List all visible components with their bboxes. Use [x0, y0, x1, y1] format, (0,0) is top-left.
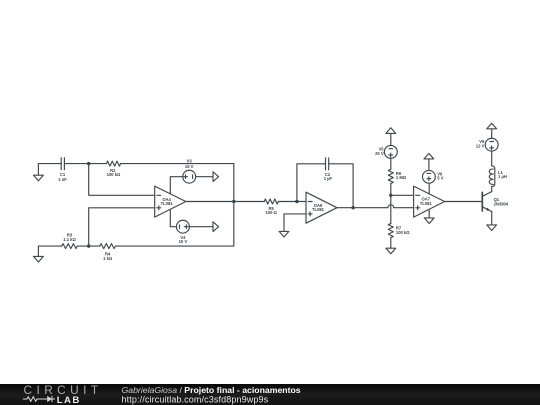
svg-text:1 µH: 1 µH	[498, 174, 507, 179]
svg-text:100 Ω: 100 Ω	[266, 210, 278, 215]
wire	[64, 163, 106, 165]
value label Q1	[494, 197, 509, 206]
node OA6 output junction	[351, 206, 354, 209]
wire	[196, 176, 213, 178]
value label V4	[179, 235, 188, 244]
value label V9	[476, 139, 485, 148]
wire	[391, 194, 414, 196]
voltage source V4	[176, 220, 189, 233]
wire	[89, 164, 155, 196]
wire	[77, 245, 88, 247]
ground	[279, 221, 289, 237]
resistor R5	[264, 199, 278, 204]
svg-text:LAB: LAB	[57, 395, 81, 405]
svg-text:5 V: 5 V	[437, 176, 443, 181]
value label R5	[266, 206, 278, 215]
value label R4	[103, 252, 113, 261]
svg-text:2N3904: 2N3904	[494, 201, 509, 206]
voltage source V6	[423, 170, 436, 183]
svg-text:20 V: 20 V	[375, 151, 384, 156]
svg-text:100 kΩ: 100 kΩ	[396, 230, 410, 235]
inductor L1	[489, 166, 495, 187]
svg-text:100 kΩ: 100 kΩ	[107, 172, 121, 177]
voltage source V9	[485, 138, 498, 151]
svg-text:1 MΩ: 1 MΩ	[396, 175, 407, 180]
svg-text:GabrielaGiosa / Projeto final: GabrielaGiosa / Projeto final - acioname…	[122, 385, 301, 395]
transistor Q1	[482, 192, 491, 212]
ground	[487, 123, 497, 138]
value label R3	[63, 233, 76, 242]
wire hop	[388, 205, 394, 208]
wire	[329, 164, 353, 208]
wire	[278, 201, 306, 203]
value label R2	[107, 168, 121, 177]
capacitor C2	[326, 158, 329, 170]
wire	[428, 183, 430, 194]
wire	[89, 208, 155, 246]
ground	[424, 153, 434, 170]
node A junction	[87, 162, 90, 165]
wire	[170, 177, 183, 194]
value label OA7	[420, 197, 433, 206]
svg-text:1.1 kΩ: 1.1 kΩ	[63, 237, 76, 242]
ground	[213, 222, 219, 232]
wire	[116, 164, 234, 247]
value label OA4	[161, 197, 174, 206]
wire	[390, 184, 392, 224]
svg-text:TL081: TL081	[161, 201, 174, 206]
svg-text:TL081: TL081	[312, 207, 325, 212]
resistor R7	[388, 224, 393, 238]
svg-text:15 V: 15 V	[185, 164, 194, 169]
wire	[189, 226, 213, 228]
wire	[445, 201, 482, 203]
value label OA6	[312, 203, 325, 212]
svg-text:12 V: 12 V	[476, 143, 485, 148]
wire	[284, 214, 306, 221]
resistor R4	[100, 244, 116, 249]
CircuitLab logo schematic line	[23, 396, 55, 402]
op-amp OA4	[155, 186, 186, 217]
resistor R2	[106, 161, 120, 166]
ground	[386, 248, 396, 254]
svg-text:http://circuitlab.com/c3sfd8pn: http://circuitlab.com/c3sfd8pn9wp9s	[122, 395, 269, 405]
svg-text:1 µF: 1 µF	[324, 176, 333, 181]
ground	[424, 210, 434, 224]
value label R6	[396, 171, 407, 180]
wire	[491, 151, 493, 166]
node OA6 inverting input junction	[295, 200, 298, 203]
svg-text:TL081: TL081	[420, 201, 433, 206]
wire	[491, 187, 493, 192]
op-amp OA7	[414, 186, 445, 217]
wire	[337, 207, 388, 209]
svg-text:V3: V3	[187, 158, 193, 163]
resistor R3	[62, 244, 78, 249]
svg-text:15 V: 15 V	[179, 239, 188, 244]
node OA7 reference junction	[389, 194, 392, 197]
ground	[34, 164, 44, 181]
ground	[386, 128, 396, 146]
ground	[34, 246, 44, 262]
resistor R6	[388, 169, 393, 183]
voltage source V3	[183, 170, 196, 183]
wire	[89, 245, 100, 247]
voltage source V5	[384, 145, 397, 158]
value label V3	[185, 158, 194, 168]
ground	[213, 172, 219, 182]
value label R7	[396, 226, 410, 235]
wire	[390, 158, 392, 169]
value label V5	[375, 147, 384, 156]
value label V6	[437, 171, 443, 180]
ground	[487, 225, 497, 231]
node OA4 output junction	[232, 200, 235, 203]
value label C1	[58, 172, 67, 182]
wire	[186, 201, 264, 203]
node R3-R4 junction	[87, 244, 90, 247]
capacitor C1	[61, 158, 64, 170]
wire	[170, 209, 176, 226]
wire	[390, 238, 392, 249]
svg-text:1 nF: 1 nF	[58, 177, 67, 182]
wire	[38, 163, 61, 165]
wire	[394, 207, 414, 209]
wire	[38, 245, 61, 247]
value label C2	[324, 172, 333, 181]
wire	[297, 164, 326, 202]
value label L1	[498, 170, 507, 179]
op-amp OA6	[306, 192, 337, 223]
wire	[491, 212, 493, 225]
svg-text:1 kΩ: 1 kΩ	[103, 256, 113, 261]
